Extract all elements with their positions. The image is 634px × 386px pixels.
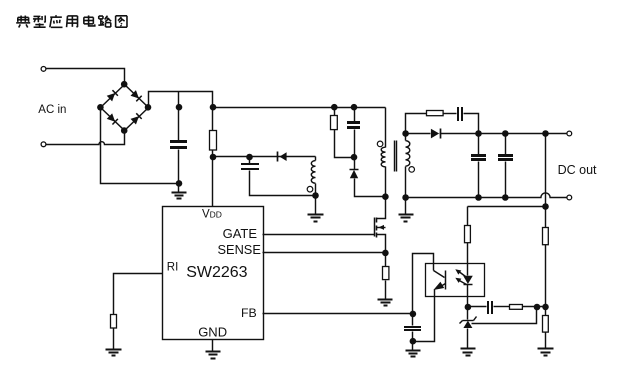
svg-text:SW2263: SW2263: [186, 264, 247, 281]
svg-text:AC in: AC in: [38, 104, 66, 116]
svg-text:GATE: GATE: [223, 226, 258, 241]
svg-text:DD: DD: [210, 210, 222, 220]
svg-text:RI: RI: [167, 261, 179, 273]
svg-text:FB: FB: [241, 306, 257, 320]
svg-text:DC out: DC out: [558, 163, 597, 177]
svg-text:GND: GND: [198, 324, 227, 339]
svg-text:SENSE: SENSE: [218, 242, 261, 257]
